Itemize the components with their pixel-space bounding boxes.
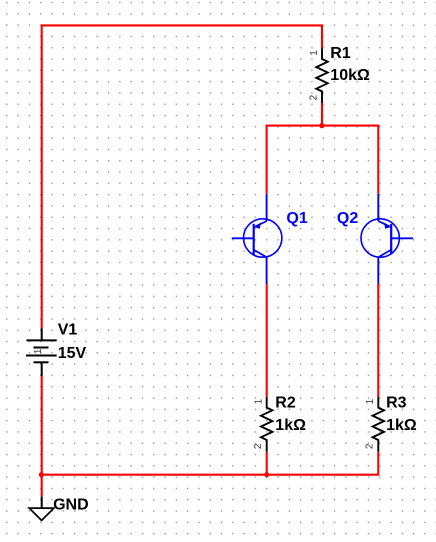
svg-text:1: 1 (309, 50, 320, 56)
Q2 body circle (361, 219, 399, 257)
Q2 collector lead (bottom) (377, 257, 379, 284)
V1 bottom lead (41, 362, 43, 376)
V1 long plate (positive, top) (27, 339, 57, 341)
Q2 emitter diagonal (378, 221, 391, 227)
svg-text:1: 1 (253, 398, 264, 404)
junction: R2 / bottom rail node (264, 472, 269, 477)
resistor R1 (316, 49, 327, 104)
Q2 base bar (390, 224, 392, 255)
wire: Q2 collector down to R3 pin 1 (377, 284, 379, 397)
Q1 emitter diagonal (254, 221, 267, 227)
svg-text:R1: R1 (330, 45, 351, 62)
svg-text:Q2: Q2 (337, 210, 358, 227)
wire: R1 pin 2 down to mid node (321, 103, 323, 126)
svg-text:1: 1 (33, 348, 44, 354)
wire: mid rail with drops to Q1 and Q2 emitters (267, 126, 379, 194)
svg-text:1kΩ: 1kΩ (275, 417, 306, 434)
svg-text:2: 2 (253, 443, 264, 449)
Q2 base lead (391, 237, 413, 239)
wire: battery bottom down left rail to ground node (41, 376, 43, 496)
wire: R2 pin 2 down to bottom rail (266, 452, 268, 475)
V1 short plate (negative, bottom) (34, 361, 49, 363)
wire: Q1 collector down to R2 pin 1 (266, 284, 268, 397)
Q2 emitter lead (top) (377, 194, 379, 221)
Q1 emitter lead (top) (266, 194, 268, 221)
svg-text:2: 2 (365, 443, 376, 449)
svg-text:R3: R3 (386, 395, 407, 412)
Q1 collector diagonal (254, 250, 266, 257)
svg-text:15V: 15V (58, 345, 87, 362)
Q2 emitter arrow (384, 223, 391, 229)
svg-text:Q1: Q1 (286, 210, 307, 227)
resistor R2 (261, 397, 272, 452)
Q1 base lead (232, 237, 254, 239)
svg-text:1: 1 (365, 398, 376, 404)
Q2 collector diagonal (379, 250, 391, 257)
resistor R3 (373, 397, 384, 452)
svg-text:2: 2 (309, 94, 320, 100)
Q1 base bar (253, 224, 255, 255)
junction: R1 / mid rail node (319, 123, 324, 128)
transistor Q1 (PNP BJT) (232, 194, 282, 284)
battery V1 (DC source) (26, 328, 57, 376)
transistor Q2 (PNP BJT, mirrored) (361, 194, 413, 284)
wire: left rail from battery top up, top rail, down to R1 pin 1 (42, 25, 322, 328)
svg-text:10kΩ: 10kΩ (330, 67, 370, 84)
wire: bottom rail from ground node right, up to R3 pin 2 (42, 452, 379, 475)
ground symbol (29, 496, 54, 520)
V1 top lead (41, 328, 43, 340)
svg-text:1kΩ: 1kΩ (386, 417, 417, 434)
svg-text:R2: R2 (275, 395, 296, 412)
junction: left rail / bottom rail / ground node (39, 472, 44, 477)
V1 short plate (upper) (34, 347, 49, 349)
svg-text:V1: V1 (58, 322, 78, 339)
Q1 emitter arrow (254, 223, 261, 229)
Q1 collector lead (bottom) (266, 257, 268, 284)
svg-text:GND: GND (53, 496, 89, 513)
Q1 body circle (244, 219, 282, 257)
V1 long plate (lower) (26, 355, 57, 357)
